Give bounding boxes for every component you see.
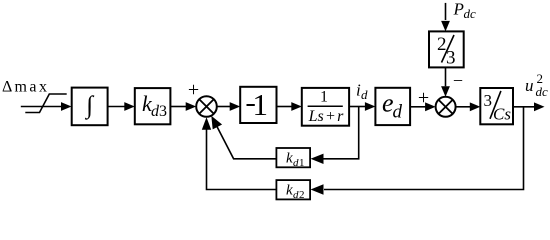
svg-text:−: −	[453, 71, 463, 91]
svg-text:max: max	[15, 79, 48, 96]
arrowhead into ed block	[365, 102, 376, 111]
wire -1 to plant block	[277, 106, 292, 108]
svg-text:k: k	[286, 151, 293, 167]
svg-text:+: +	[188, 79, 199, 101]
input Pdc arrow	[445, 3, 447, 20]
wire kd2 to summing junction 1 (vertical)	[207, 130, 277, 190]
gain block kd3	[135, 88, 171, 124]
svg-text:∫: ∫	[84, 92, 94, 120]
rate limiter symbol	[25, 94, 66, 113]
gain block kd1	[276, 148, 310, 167]
arrowhead into kd3	[124, 102, 135, 111]
svg-text:P: P	[453, 0, 464, 19]
svg-text:d: d	[393, 102, 403, 123]
gain block -1	[240, 87, 276, 123]
summing junction 2	[436, 97, 456, 117]
wire plant to ed block, node id	[349, 106, 365, 108]
svg-text:Ls + r: Ls + r	[308, 108, 345, 125]
arrowhead into summing junction 1	[186, 102, 197, 111]
arrowhead into kd2 right side	[311, 184, 324, 194]
arrowhead into -1 block	[230, 102, 241, 111]
arrowhead into kd1 right side	[311, 154, 324, 164]
svg-text:+: +	[418, 87, 429, 109]
wire kd1 to summing junction 1 (diagonal)	[217, 127, 276, 159]
svg-text:1: 1	[253, 87, 269, 122]
svg-text:3: 3	[446, 48, 456, 69]
arrowhead into 3/Cs	[470, 102, 481, 111]
arrowhead into integrator	[61, 102, 72, 111]
wire ed to summing junction 2	[410, 106, 425, 108]
svg-text:k: k	[286, 183, 293, 199]
arrowhead into summing junction 2 top	[441, 86, 450, 97]
arrowhead into plant block	[291, 102, 302, 111]
wire node id down to kd1	[322, 107, 359, 159]
svg-text:3: 3	[159, 103, 167, 120]
svg-text:u: u	[525, 76, 534, 95]
block 3/Cs	[480, 88, 513, 124]
block 2/3	[429, 31, 464, 67]
wire integrator to kd3	[108, 106, 125, 108]
output arrowhead	[534, 102, 545, 111]
wire summing junction 1 to -1 block	[217, 106, 230, 108]
svg-text:dc: dc	[464, 6, 477, 21]
svg-text:Cs: Cs	[493, 105, 511, 124]
svg-text:Δ: Δ	[2, 79, 12, 96]
gain block kd2	[276, 180, 310, 199]
wire kd3 to summing junction 1	[170, 106, 186, 108]
wire summing junction 2 to 3/Cs	[456, 106, 470, 108]
arrowhead into summing junction 2	[425, 102, 436, 111]
svg-text:2: 2	[299, 189, 305, 201]
wire input	[21, 106, 61, 108]
arrowhead diagonal into summing junction 1	[211, 116, 222, 130]
arrowhead vertical into summing junction 1	[202, 117, 211, 130]
block ed	[375, 88, 410, 125]
svg-text:1: 1	[299, 157, 305, 169]
integrator box	[72, 88, 108, 126]
feedback tap to kd2	[324, 107, 524, 190]
svg-text:1: 1	[320, 89, 328, 106]
svg-text:d: d	[361, 87, 368, 102]
summing junction 1	[196, 96, 217, 117]
output wire	[513, 106, 534, 108]
svg-text:3: 3	[484, 91, 493, 110]
wire 2/3 down to summing junction 2	[445, 67, 447, 86]
svg-text:dc: dc	[536, 84, 549, 99]
plant block 1/(Ls+r)	[302, 88, 349, 126]
